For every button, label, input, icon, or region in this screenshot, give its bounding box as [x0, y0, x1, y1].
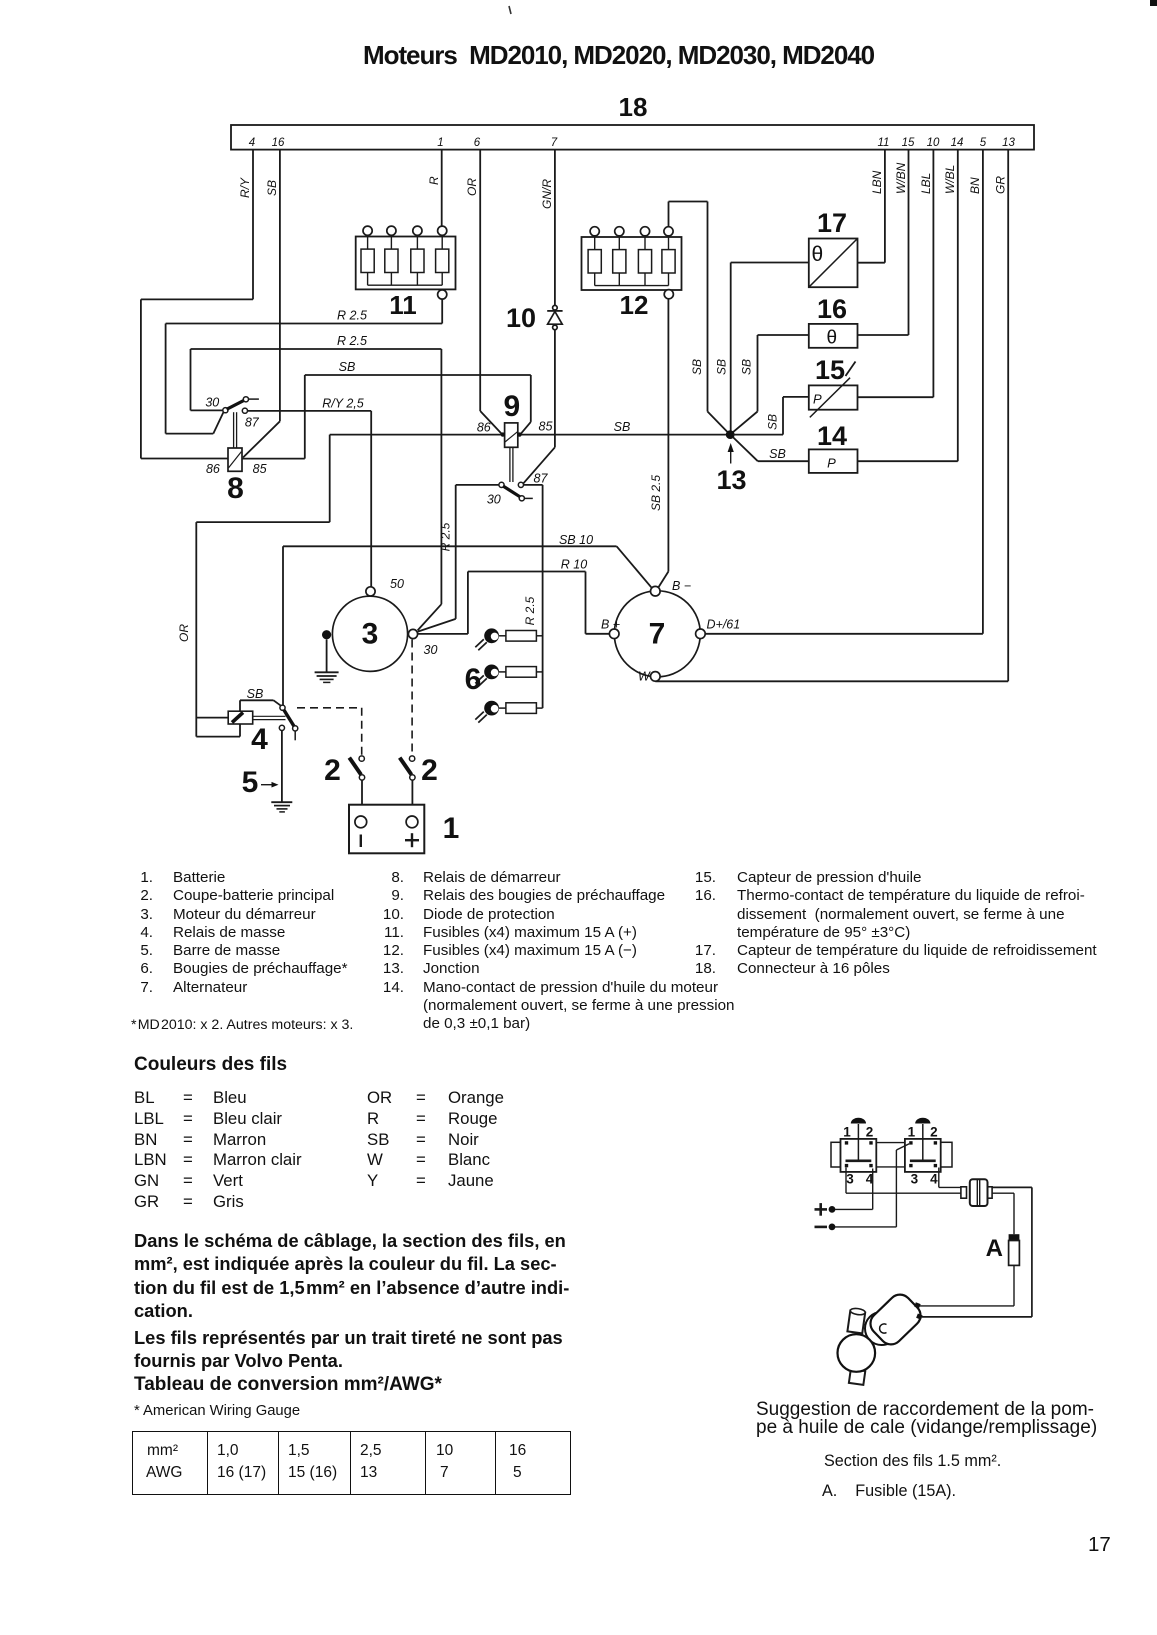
svg-text:30: 30	[424, 643, 438, 657]
svg-text:GR: GR	[994, 176, 1008, 194]
paragraph 2	[134, 1326, 563, 1373]
svg-text:86: 86	[477, 421, 491, 435]
svg-text:6: 6	[465, 663, 482, 696]
wire junction to pressure switch 14	[733, 437, 809, 461]
wire pin10 LBL to sensor 15	[919, 150, 933, 398]
wire pin7 GN/R to diode 10	[540, 150, 555, 306]
svg-text:θ: θ	[812, 243, 824, 266]
AWG conversion table	[132, 1431, 571, 1495]
svg-text:B −: B −	[672, 579, 691, 593]
pressure switch S14 (mano-contact pression d huile)	[809, 421, 958, 473]
sensor B16 (thermo-contact temperature)	[809, 294, 909, 349]
svg-text:3: 3	[362, 618, 379, 651]
svg-text:SB: SB	[766, 414, 780, 430]
svg-text:D+/61: D+/61	[707, 618, 741, 632]
svg-text:SB 2.5: SB 2.5	[649, 475, 663, 511]
svg-text:8: 8	[227, 472, 244, 505]
svg-text:LBN: LBN	[870, 170, 884, 194]
svg-text:85: 85	[539, 420, 553, 434]
wire R 10 starter motor 30 to alternator B+	[418, 558, 610, 634]
svg-text:W/BN: W/BN	[894, 162, 908, 194]
svg-text:86: 86	[206, 462, 220, 476]
wire R/Y 2.5 relay 8 87 to starter motor 50	[248, 397, 372, 587]
wire junction to sensor 17	[731, 262, 809, 264]
ground bar 5 (barre de masse)	[242, 731, 293, 812]
svg-text:4: 4	[251, 723, 268, 756]
wire pin15 W/BN to sensor 16	[894, 150, 909, 335]
legend column 3	[692, 869, 1122, 979]
page title	[363, 40, 874, 71]
svg-text:50: 50	[390, 577, 404, 591]
svg-text:OR: OR	[177, 624, 191, 642]
svg-text:17: 17	[817, 208, 847, 238]
relay R8 (relais de demarreur)	[205, 396, 266, 506]
svg-text:13: 13	[1002, 137, 1015, 149]
svg-text:10: 10	[927, 137, 940, 149]
svg-text:R/Y: R/Y	[238, 177, 252, 198]
glow plugs 6 (bougies de prechauffage)	[465, 628, 543, 722]
stray mark top center	[509, 6, 511, 14]
wire fuse A to pump	[919, 1265, 1014, 1306]
svg-text:87: 87	[245, 416, 260, 430]
wire SB 2.5 fuse block 12 bottom to alternator B-	[649, 299, 668, 588]
page corner mark	[1150, 0, 1157, 6]
wire pin6 OR to relay 9 coil 86	[465, 150, 502, 434]
diode 10 (diode de protection) on GN/R wire	[506, 303, 563, 333]
couleurs des fils	[134, 1054, 287, 1076]
wire junction to sensor 15	[733, 397, 809, 435]
svg-text:SB: SB	[769, 447, 786, 461]
svg-text:2: 2	[324, 754, 341, 787]
wire tap to relay 4 coil	[196, 717, 228, 719]
wire SB relay 8 85 to relay 9 85	[242, 360, 531, 459]
wire pin4 R/Y to relay 8 coil 86	[141, 150, 253, 459]
svg-text:R 10: R 10	[561, 558, 587, 572]
svg-text:1: 1	[443, 812, 460, 845]
svg-text:5: 5	[242, 766, 259, 799]
svg-text:30: 30	[487, 493, 501, 507]
svg-text:SB: SB	[740, 359, 754, 375]
svg-text:W: W	[638, 670, 651, 684]
svg-text:16: 16	[817, 294, 847, 324]
wire fuse block 12 top to junction 13	[669, 202, 708, 412]
sensor B15 (capteur de pression d huile)	[809, 355, 934, 417]
relay R9 (relais des bougies de prechauffage)	[477, 390, 553, 507]
battery 1 (batterie)	[349, 805, 459, 854]
bilge pump (pompe a huile de cale)	[838, 1290, 926, 1385]
wire pin5 BN to alternator D+/61	[705, 150, 983, 634]
svg-text:30: 30	[205, 396, 219, 410]
wire OR main SB line to relay 4	[177, 435, 330, 737]
svg-text:R 2.5: R 2.5	[337, 334, 367, 348]
wire switch2-4 to connector	[939, 1168, 967, 1188]
svg-text:W/BL: W/BL	[943, 165, 957, 194]
svg-text:7: 7	[551, 137, 558, 149]
svg-text:R/Y 2,5: R/Y 2,5	[322, 397, 364, 411]
dashed wire starter motor 30 to battery switch	[411, 640, 413, 755]
svg-text:4: 4	[930, 1172, 938, 1187]
fuse block 12 (4 fuses, -side)	[582, 227, 682, 320]
svg-text:2: 2	[866, 1125, 874, 1140]
pump circuit: rocker switch 2	[905, 1118, 952, 1187]
wire relay 9 87 to glow plugs	[523, 485, 543, 708]
svg-text:9: 9	[503, 390, 520, 423]
wire pin11 LBN to sensor 17	[870, 150, 885, 263]
fuse A (15A)	[986, 1234, 1020, 1265]
svg-text:3: 3	[846, 1172, 854, 1187]
svg-text:R 2.5: R 2.5	[523, 596, 537, 625]
legend footnote	[131, 1017, 353, 1033]
wire connector to fuse A	[992, 1193, 1014, 1234]
svg-text:85: 85	[253, 462, 267, 476]
paragraph 1	[134, 1229, 569, 1323]
sensor B17 (capteur temperature liquide refroidissement)	[809, 208, 885, 287]
wire pin13 GR to alternator W	[655, 150, 1008, 682]
wire connector to pump (outer)	[922, 1187, 1032, 1317]
wire junction to sensor 16	[758, 335, 809, 412]
minus supply feed	[815, 1144, 910, 1231]
wire pin16 SB to relay 8 terminal 85	[243, 150, 280, 458]
svg-text:14: 14	[951, 137, 964, 149]
svg-text:θ: θ	[827, 328, 838, 349]
wire GN/R diode to relay 9 contact 87	[523, 330, 555, 484]
svg-text:R: R	[427, 176, 441, 185]
svg-text:18: 18	[619, 92, 648, 122]
connector X18 (16-pole connector bar)	[231, 92, 1034, 150]
svg-text:1: 1	[843, 1125, 851, 1140]
page number	[1088, 1533, 1111, 1557]
svg-text:SB: SB	[614, 420, 631, 434]
svg-text:SB: SB	[715, 359, 729, 375]
junction 13 (jonction)	[690, 263, 758, 496]
wire pin1 R to fuse block 11	[427, 150, 442, 226]
alternator G7 (alternateur)	[601, 579, 740, 684]
svg-text:15: 15	[815, 355, 845, 385]
pump caption	[756, 1401, 1097, 1437]
inline connector	[961, 1179, 992, 1206]
svg-text:SB 10: SB 10	[559, 533, 593, 547]
fuse block 11 (4 fuses, +side)	[356, 226, 456, 320]
svg-text:2: 2	[930, 1125, 938, 1140]
ground at starter motor	[315, 639, 339, 682]
svg-text:SB: SB	[265, 180, 279, 196]
main battery switch 2 (right)	[400, 754, 438, 805]
svg-text:2: 2	[421, 754, 438, 787]
svg-text:6: 6	[474, 137, 481, 149]
svg-text:B +: B +	[601, 618, 620, 632]
svg-text:87: 87	[534, 472, 549, 486]
svg-text:7: 7	[649, 618, 666, 651]
wire pin14 W/BL to sensor 14	[943, 150, 958, 462]
svg-text:BN: BN	[968, 177, 982, 194]
svg-text:SB: SB	[339, 360, 356, 374]
svg-text:SB: SB	[247, 687, 264, 701]
svg-text:12: 12	[620, 290, 649, 320]
svg-text:SB: SB	[690, 359, 704, 375]
wire R 2.5 fuse 11 output to relay 8 contact 30	[166, 299, 443, 434]
svg-text:1: 1	[908, 1125, 916, 1140]
svg-text:10: 10	[506, 303, 536, 333]
svg-text:P: P	[827, 456, 836, 471]
legend column 2	[380, 869, 740, 1034]
wire switch1-3 to connector	[846, 1168, 966, 1194]
svg-text:3: 3	[911, 1172, 919, 1187]
svg-text:11: 11	[878, 137, 890, 149]
svg-text:GN/R: GN/R	[540, 179, 554, 209]
svg-text:13: 13	[716, 465, 746, 495]
legend column 1	[131, 869, 381, 997]
table heading	[134, 1374, 442, 1396]
svg-text:5: 5	[980, 137, 987, 149]
wire SB horizontal to junction 13	[330, 420, 727, 435]
wire R 2.5 (second) to relay 8 contact 30 and starter motor	[191, 334, 442, 410]
pump circuit: rocker switch 1	[831, 1118, 876, 1187]
svg-text:16: 16	[272, 137, 285, 149]
svg-text:15: 15	[902, 137, 915, 149]
dashed wire relay 4 to battery switch	[297, 708, 362, 755]
main battery switch 2 (left)	[324, 754, 365, 805]
svg-text:1: 1	[437, 137, 443, 149]
svg-text:R 2.5: R 2.5	[337, 309, 367, 323]
svg-text:4: 4	[249, 137, 255, 149]
svg-text:A: A	[986, 1235, 1003, 1262]
svg-text:P: P	[813, 392, 822, 407]
wires between switches	[876, 1143, 905, 1167]
svg-text:14: 14	[817, 421, 847, 451]
wire R 2.5 down to starter motor 30	[418, 349, 453, 630]
plus supply feed	[815, 1169, 873, 1216]
svg-text:LBL: LBL	[919, 173, 933, 194]
svg-text:OR: OR	[465, 178, 479, 196]
wire SB 10 relay 4 to alternator B-	[283, 533, 652, 705]
svg-text:11: 11	[389, 290, 417, 320]
wire R relay 9 30 to starter motor 30	[418, 485, 499, 632]
relay K4 (relais de masse)	[228, 687, 298, 756]
starter motor M3 (moteur du demarreur)	[322, 577, 437, 671]
